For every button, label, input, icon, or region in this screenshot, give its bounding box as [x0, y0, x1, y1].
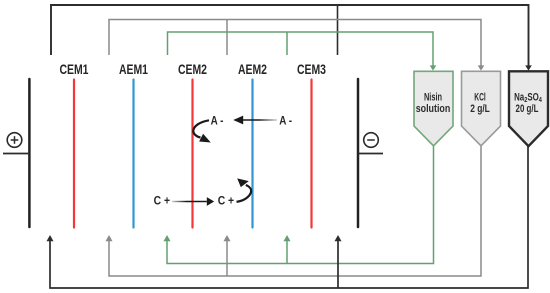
svg-text:A -: A - — [279, 113, 292, 127]
svg-text:KCl: KCl — [474, 91, 486, 103]
svg-text:CEM2: CEM2 — [178, 62, 207, 77]
svg-text:solution: solution — [416, 103, 451, 115]
svg-text:C +: C + — [218, 193, 234, 207]
svg-text:20 g/L: 20 g/L — [516, 103, 539, 115]
svg-text:AEM2: AEM2 — [238, 62, 267, 77]
svg-text:AEM1: AEM1 — [119, 62, 148, 77]
svg-text:A -: A - — [211, 113, 224, 127]
svg-text:C +: C + — [154, 193, 170, 207]
svg-text:CEM1: CEM1 — [60, 62, 89, 77]
svg-text:CEM3: CEM3 — [297, 62, 326, 77]
svg-text:2 g/L: 2 g/L — [470, 103, 490, 115]
svg-text:Nisin: Nisin — [424, 91, 442, 103]
